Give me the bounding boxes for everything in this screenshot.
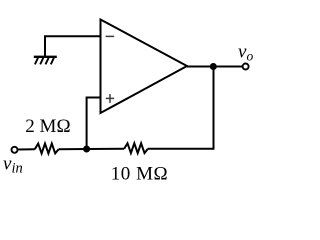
- terminal vin: [12, 147, 18, 153]
- svg-text:vo: vo: [238, 41, 253, 63]
- ground: [34, 57, 57, 65]
- svg-text:10 MΩ: 10 MΩ: [111, 164, 169, 185]
- node B (output junction dot): [210, 63, 217, 70]
- wire: vin terminal to resistor R1: [18, 148, 35, 150]
- op-amp U1: [101, 20, 188, 114]
- terminal vo: [243, 64, 249, 70]
- wire: resistor R1 to node A: [59, 148, 87, 150]
- wire: resistor R2 to node B (right riser): [148, 67, 214, 149]
- wire: node A to resistor R2: [87, 148, 125, 150]
- wire: op-amp output to terminal vo: [187, 66, 242, 68]
- op-amp U1 non-inverting input (+) marker: [106, 94, 114, 103]
- wire: ground to op-amp inverting input: [45, 36, 101, 57]
- svg-text:2 MΩ: 2 MΩ: [25, 116, 70, 137]
- node A (junction dot): [83, 146, 90, 153]
- resistor R2 (10 MOhm): [124, 143, 148, 153]
- op-amp U1 inverting input (-) marker: [106, 35, 115, 37]
- wire: op-amp non-inverting input to node A: [87, 98, 101, 150]
- svg-text:vin: vin: [3, 154, 23, 177]
- resistor R1 (2 MOhm): [35, 144, 59, 154]
